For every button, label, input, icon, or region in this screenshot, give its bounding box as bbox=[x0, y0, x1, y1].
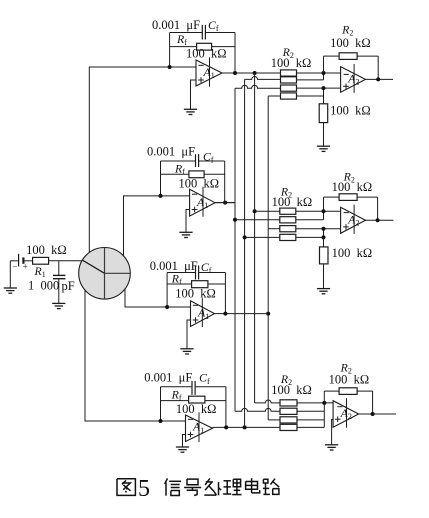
svg-text:0.001 μF: 0.001 μF bbox=[144, 371, 192, 385]
svg-text:+: + bbox=[23, 262, 28, 272]
svg-text:100 kΩ: 100 kΩ bbox=[175, 287, 216, 301]
svg-text:100 kΩ: 100 kΩ bbox=[332, 180, 373, 194]
svg-text:100 kΩ: 100 kΩ bbox=[272, 195, 313, 209]
svg-text:pF: pF bbox=[62, 279, 75, 293]
svg-text:0.001 μF: 0.001 μF bbox=[152, 18, 200, 32]
svg-text:100 kΩ: 100 kΩ bbox=[332, 246, 373, 260]
svg-text:100 kΩ: 100 kΩ bbox=[330, 104, 371, 118]
svg-text:100 kΩ: 100 kΩ bbox=[179, 176, 220, 190]
svg-text:100 kΩ: 100 kΩ bbox=[329, 372, 370, 386]
svg-text:100 kΩ: 100 kΩ bbox=[330, 36, 371, 50]
svg-text:0.001 μF: 0.001 μF bbox=[147, 144, 195, 158]
svg-text:100 kΩ: 100 kΩ bbox=[271, 383, 312, 397]
svg-text:100 kΩ: 100 kΩ bbox=[26, 243, 67, 257]
svg-text:100 kΩ: 100 kΩ bbox=[186, 47, 227, 61]
svg-text:100 kΩ: 100 kΩ bbox=[176, 402, 217, 416]
svg-text:100 kΩ: 100 kΩ bbox=[271, 56, 312, 70]
svg-text:5: 5 bbox=[138, 476, 150, 502]
svg-text:1 000: 1 000 bbox=[28, 278, 59, 292]
svg-text:−: − bbox=[12, 261, 17, 271]
